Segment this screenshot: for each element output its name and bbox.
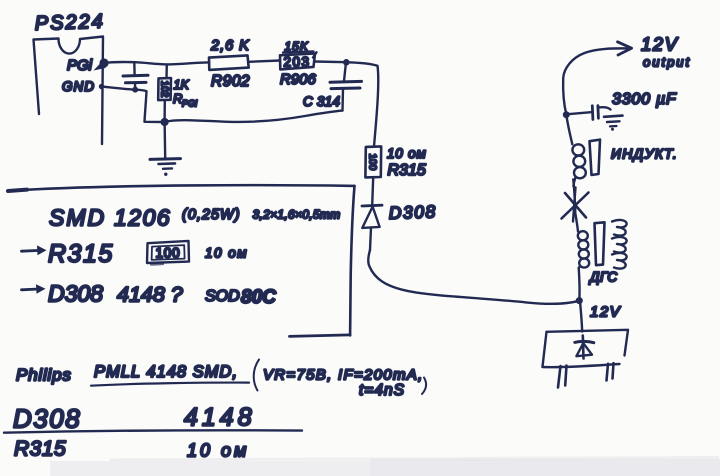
svg-text:D308: D308 — [388, 201, 437, 223]
table line — [4, 430, 302, 432]
diode D308 — [362, 204, 382, 208]
svg-text:80C: 80C — [241, 287, 276, 308]
svg-text:12V: 12V — [641, 34, 679, 55]
node 3300uF junction — [563, 111, 570, 118]
svg-text:R906: R906 — [280, 71, 317, 88]
svg-text:D308: D308 — [13, 404, 81, 434]
box legs — [558, 366, 561, 388]
svg-text:4148 ?: 4148 ? — [117, 283, 183, 307]
svg-text:3300 µF: 3300 µF — [612, 91, 677, 108]
diode symbol in box — [581, 336, 584, 359]
svg-text:12V: 12V — [590, 304, 622, 321]
arrow to R315 row — [22, 249, 41, 253]
inductor coil — [566, 115, 572, 145]
svg-text:t=4nS: t=4nS — [359, 382, 405, 399]
capacitor near PGi (unlabeled) — [133, 62, 136, 74]
underline — [91, 383, 249, 386]
svg-text:4148: 4148 — [184, 404, 256, 432]
wire D308 to 12V node (long curve) — [368, 250, 579, 304]
svg-text:ДГС: ДГС — [588, 270, 618, 285]
svg-text:R902: R902 — [211, 73, 250, 90]
svg-text:output: output — [643, 55, 691, 70]
wire R906 to node — [315, 60, 346, 63]
svg-text:(0,25W): (0,25W) — [182, 207, 241, 223]
wire node to corner down to R315 — [346, 62, 378, 146]
wire R315 to D308 — [372, 177, 373, 205]
node GND pin dot — [99, 84, 104, 89]
svg-text:R315: R315 — [388, 162, 426, 179]
svg-text:3,2×1,6×0,5mm: 3,2×1,6×0,5mm — [253, 208, 341, 222]
svg-text:R: R — [173, 91, 182, 106]
transformer DGS left coil — [575, 213, 578, 232]
svg-text:D308: D308 — [48, 281, 103, 307]
capacitor C314 — [344, 62, 346, 81]
svg-text:10 ом: 10 ом — [187, 441, 249, 461]
svg-text:R315: R315 — [14, 438, 66, 461]
SMD info box bottom segment — [290, 335, 351, 337]
node C314 top junction — [343, 59, 350, 66]
SMD info box top edge — [8, 185, 355, 191]
svg-text:100: 100 — [367, 153, 378, 170]
capacitor 3300uF plates — [591, 106, 594, 120]
node main ground junction — [161, 118, 169, 126]
svg-text:SOD: SOD — [205, 288, 240, 305]
svg-text:1K: 1K — [174, 78, 190, 92]
resistor R_PGi 1K (102) — [165, 65, 168, 79]
chip box 100 — [147, 241, 189, 263]
svg-text:102: 102 — [158, 81, 169, 98]
svg-text:GND: GND — [62, 79, 95, 94]
svg-text:2,6 K: 2,6 K — [210, 38, 250, 54]
rectifier box — [547, 330, 629, 356]
svg-text:PS224: PS224 — [34, 11, 105, 35]
transformer DGS core — [595, 222, 605, 265]
svg-text:10 ом: 10 ом — [205, 246, 248, 261]
wire PGi to R902 — [104, 62, 209, 64]
svg-text:VR=75B, IF=200mA,: VR=75B, IF=200mA, — [263, 367, 424, 384]
svg-text:Philips: Philips — [16, 366, 72, 385]
wire GND pin to ground node — [102, 87, 165, 123]
node 12V junction — [576, 297, 583, 304]
svg-text:10 ом: 10 ом — [387, 146, 427, 161]
wire R902 to R906 — [249, 61, 280, 62]
svg-text:15K: 15K — [285, 40, 309, 54]
ground at 3300uF — [604, 116, 623, 117]
arrowhead — [618, 42, 632, 48]
wire 12V node into box — [580, 301, 582, 332]
svg-text:PGi: PGi — [182, 99, 198, 109]
ground — [150, 157, 181, 161]
shadow band bottom — [50, 456, 720, 476]
node PGi junction dot — [94, 58, 109, 70]
wire junction to ground symbol — [163, 122, 166, 158]
svg-text:ИНДУКТ.: ИНДУКТ. — [611, 146, 678, 162]
svg-text:C 314: C 314 — [303, 94, 340, 109]
resistor R902 2.6K — [209, 55, 249, 70]
wire to 3300uF cap — [566, 112, 591, 114]
svg-text:PGi: PGi — [67, 57, 93, 74]
svg-text:100: 100 — [156, 246, 181, 261]
svg-text:203: 203 — [284, 55, 311, 70]
wire inductor to X to coil — [573, 180, 575, 213]
svg-text:1206: 1206 — [114, 205, 171, 231]
svg-text:SMD: SMD — [49, 205, 106, 231]
wire ground return to C314 bottom — [165, 111, 343, 122]
big paren — [254, 360, 259, 391]
inductor core — [590, 140, 601, 175]
wire node up and arrow to 12V output — [563, 48, 627, 114]
resistor R906 15K (203) — [280, 54, 315, 70]
node cap-gnd junction — [132, 87, 138, 93]
X mark on wire — [562, 193, 589, 219]
SMD info box right edge — [350, 186, 354, 335]
IC U1 PS224 outline — [34, 37, 104, 145]
wire node up to DGS coil — [578, 268, 581, 301]
svg-text:R315: R315 — [48, 240, 114, 268]
svg-text:PMLL 4148 SMD,: PMLL 4148 SMD, — [94, 363, 238, 381]
transformer DGS right coil — [612, 220, 627, 236]
resistor R315 (100) — [365, 146, 381, 177]
arrow to D308 row — [22, 288, 40, 292]
